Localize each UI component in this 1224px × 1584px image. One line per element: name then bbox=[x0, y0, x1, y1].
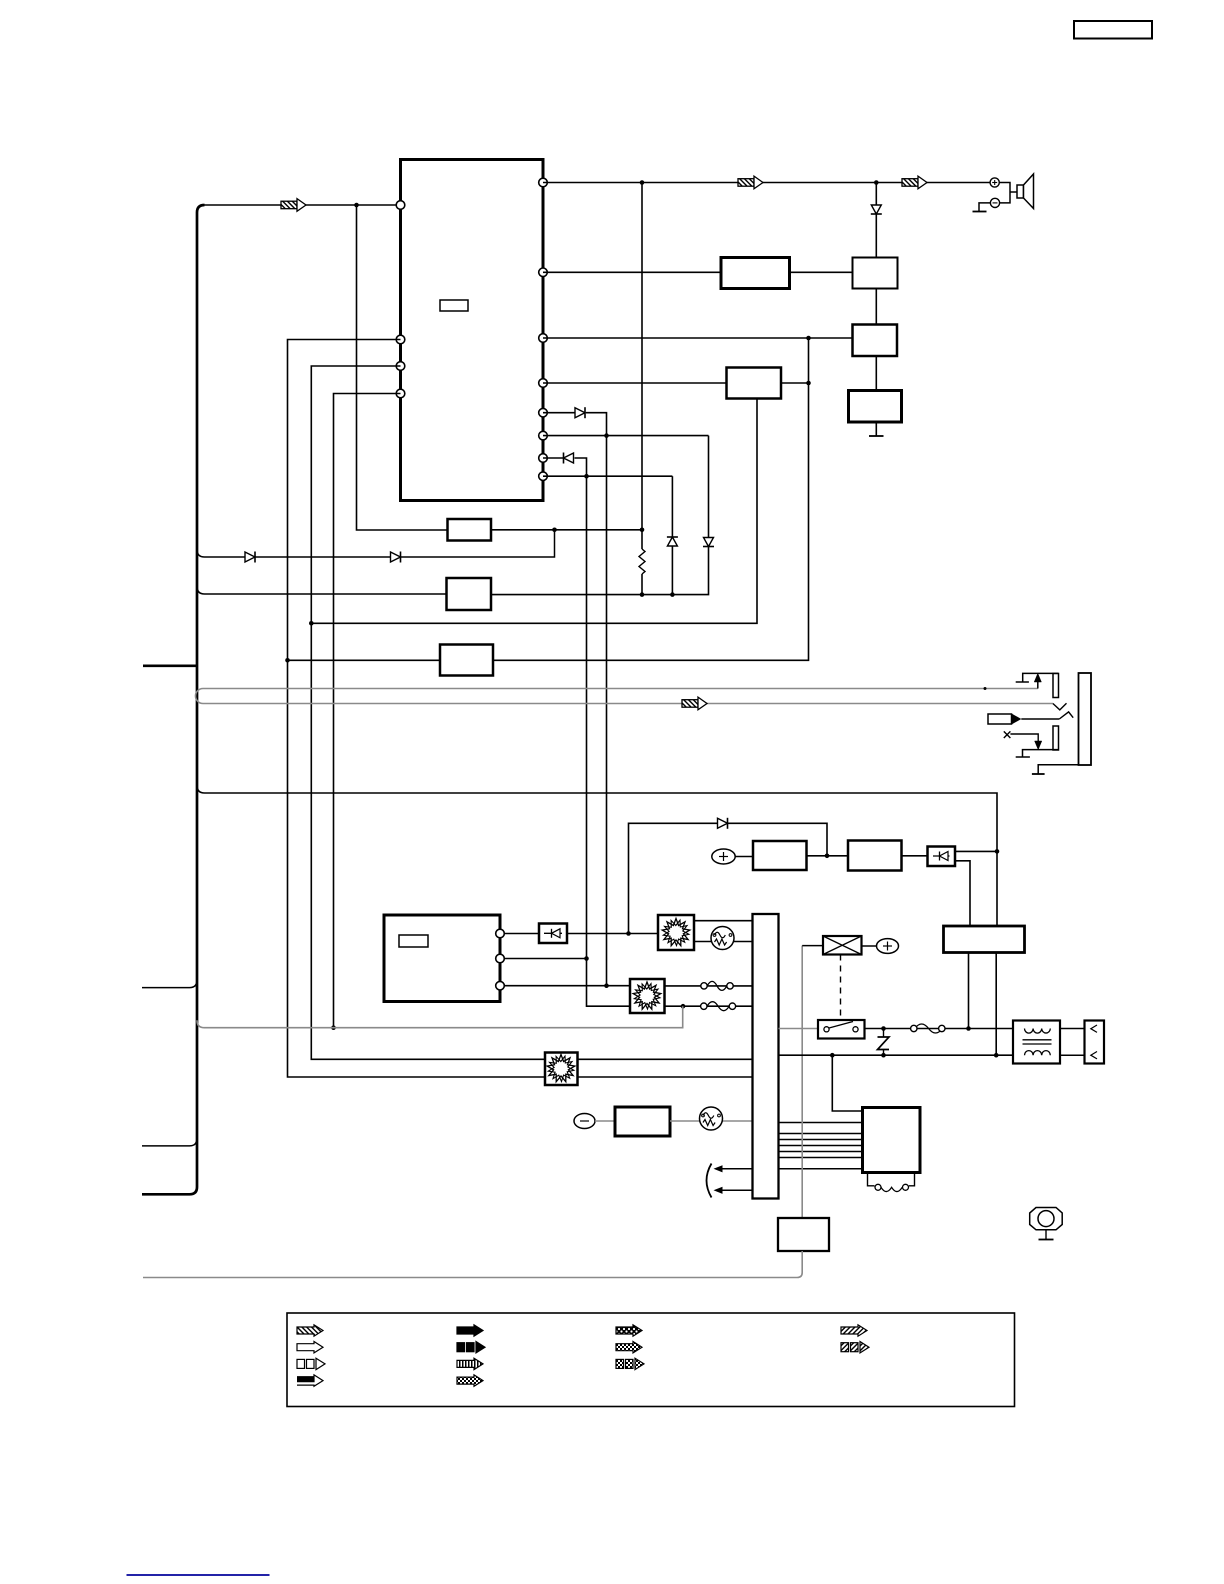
plus terminal 2 bbox=[877, 939, 899, 954]
wire switch to transformer bbox=[865, 1028, 1014, 1030]
power block M (thick) bbox=[863, 1108, 921, 1173]
tuner block U2 (thick) bbox=[384, 915, 500, 1002]
wire pin R6 bbox=[543, 435, 709, 437]
wire bar to power block bundle bbox=[779, 1122, 863, 1124]
wire R8 vertical down with diode D7 bbox=[671, 476, 673, 537]
wire vertical from L1 junction to small block F1 bbox=[357, 205, 448, 530]
wire gray AM loop antenna line bbox=[197, 1006, 683, 1027]
signal arrow A1 bbox=[281, 199, 306, 212]
diode D3 bbox=[871, 205, 881, 214]
wire feedback with diode D8 bbox=[629, 823, 718, 933]
block D bbox=[727, 368, 782, 399]
wire gray motor line vertical bbox=[801, 946, 803, 1218]
arrow out lower 1 bbox=[718, 1168, 753, 1170]
legend arrow c3r1 dotted black bbox=[616, 1325, 642, 1336]
diode D1 bbox=[245, 552, 255, 562]
pin L4 bbox=[396, 389, 405, 398]
junction small on head cable bbox=[984, 687, 987, 690]
wire block L to trap T2 bbox=[670, 1120, 753, 1122]
tuner label box bbox=[399, 935, 428, 947]
wire box2 upper out with fuse bbox=[665, 985, 753, 987]
pin L1 bbox=[396, 201, 405, 210]
wire playback head cable loop bbox=[196, 689, 204, 704]
junction L1 bbox=[354, 203, 359, 208]
speaker SP1 bbox=[1017, 185, 1024, 198]
wire pin R8 bbox=[543, 475, 672, 477]
signal arrow A2 bbox=[738, 176, 763, 189]
op-amp main IC U1 bbox=[401, 160, 544, 501]
wire bus to IC input bbox=[205, 204, 397, 206]
pin R6 bbox=[539, 431, 548, 440]
fuse F3 bbox=[915, 1024, 943, 1033]
X mark bbox=[1004, 731, 1011, 738]
wire J2 to AM box bbox=[567, 933, 658, 935]
pin R8 bbox=[539, 472, 548, 481]
wire bus branch to rectifier net bbox=[197, 786, 997, 927]
wire bus branch with diodes D1 D2 bbox=[197, 530, 555, 557]
pin R1 bbox=[539, 178, 548, 187]
wire vertical R3/R4 junction down bbox=[493, 338, 809, 660]
tuner pin P1 bbox=[496, 929, 505, 938]
legend arrow c2r4 checkered bbox=[457, 1375, 483, 1386]
wire plus to block H bbox=[735, 856, 753, 858]
head shield bracket top bbox=[1016, 673, 1059, 682]
tape jog upper bbox=[1053, 703, 1067, 710]
wire L3 branch to block D return bbox=[311, 399, 757, 624]
pin R2 bbox=[539, 268, 548, 277]
legend box bbox=[287, 1313, 1015, 1407]
junction R5 vertical to tuner wire bbox=[604, 983, 609, 988]
diode D4 bbox=[575, 408, 585, 418]
signal arrow A3 bbox=[902, 176, 927, 189]
junction L2 branch bbox=[285, 658, 290, 663]
block E (thick) bbox=[849, 391, 902, 423]
junction to power block M bbox=[830, 1053, 835, 1058]
legend arrow c1r2 white bbox=[297, 1342, 323, 1353]
power plus terminal bbox=[712, 849, 735, 864]
wire K out right pin bbox=[995, 953, 997, 1056]
rec/pb head bbox=[1053, 674, 1059, 698]
block A (thick) bbox=[721, 258, 790, 289]
wire block C to block E bbox=[875, 356, 877, 391]
junction K to AC line bbox=[966, 1026, 971, 1031]
junction R1-a bbox=[640, 180, 645, 185]
hex nut symbol bbox=[1030, 1208, 1063, 1230]
ferrite bead Z bbox=[883, 1029, 885, 1037]
diode D2 bbox=[391, 552, 401, 562]
arrow into head (up) bbox=[1037, 679, 1039, 689]
trap circle T2 bbox=[700, 1107, 723, 1130]
diode D6 bbox=[704, 538, 714, 547]
legend arrow c2r2 black squares bbox=[457, 1343, 465, 1352]
ground block E bbox=[869, 435, 884, 437]
wire junction R1-a down bbox=[641, 183, 643, 550]
speaker terminal minus bbox=[990, 198, 999, 207]
wire block I to diode box J bbox=[902, 855, 928, 857]
junction F1/diode-net bbox=[552, 528, 557, 533]
diode D8 bbox=[718, 818, 728, 828]
wire box3 upper out bbox=[578, 1058, 753, 1060]
block F3 bbox=[440, 645, 493, 676]
wire pin R7 with diode D5 bbox=[543, 457, 564, 459]
pin R5 bbox=[539, 408, 548, 417]
wire minus to block L bbox=[595, 1120, 615, 1122]
wire R6 vertical down with diode D6 bbox=[708, 436, 710, 538]
junction L4 to gray antenna wire bbox=[331, 1025, 336, 1030]
pin L2 bbox=[396, 335, 405, 344]
wire J out upper bbox=[955, 850, 997, 852]
wire box1 lower out through trap bbox=[694, 941, 753, 943]
wire mixer to gray vertical bbox=[802, 945, 823, 947]
wire block B to block C bbox=[875, 289, 877, 325]
antenna box 3 bbox=[545, 1053, 578, 1086]
junction R4 bbox=[806, 381, 811, 386]
wire head cable upper bbox=[203, 688, 1038, 690]
wire bus branch to F2 bbox=[197, 587, 447, 595]
dashed link mixer to switch bbox=[840, 955, 842, 1021]
ground speaker bbox=[973, 211, 987, 213]
head shield bracket bottom bbox=[1016, 750, 1059, 757]
block C bbox=[853, 325, 898, 357]
wire P2 to R7 vertical bbox=[504, 958, 586, 960]
pin R7 bbox=[539, 454, 548, 463]
junction antenna gray bbox=[681, 1004, 686, 1009]
fuse F1 bbox=[701, 981, 733, 990]
wire main signal bus (thick vertical) bbox=[142, 205, 205, 1194]
power transformer T bbox=[1013, 1021, 1060, 1064]
wire P1 to diode box J2 bbox=[504, 933, 539, 935]
erase head bbox=[1053, 726, 1059, 750]
junction R8/R7 bbox=[584, 474, 589, 479]
wire pin L2 to vertical bbox=[288, 340, 546, 1078]
junction resistor bottom bbox=[640, 592, 645, 597]
junction K to AC line 2 bbox=[994, 1053, 999, 1058]
block H bbox=[753, 841, 807, 870]
pin R4 bbox=[539, 379, 548, 388]
reference box top right bbox=[1074, 21, 1152, 39]
legend arrow c2r1 solid black bbox=[457, 1325, 483, 1336]
junction D7 bottom bbox=[670, 592, 675, 597]
wire erase feed to tape bbox=[1021, 718, 1059, 720]
IC U1 label box bbox=[440, 300, 468, 311]
junction R3 bbox=[806, 336, 811, 341]
pin L3 bbox=[396, 362, 405, 371]
wire pin R3 to block C bbox=[543, 337, 853, 339]
wire to tuner filter F3 bbox=[288, 659, 441, 661]
wire pin R1 to speaker bbox=[543, 182, 990, 184]
fuse F2 bbox=[701, 1002, 736, 1011]
wire box2 lower out with fuse bbox=[665, 1005, 753, 1007]
wire page stub in (thick) bbox=[143, 664, 197, 667]
speaker terminal plus bbox=[990, 178, 999, 187]
FM antenna box 2 bbox=[630, 979, 665, 1013]
junction L3 branch bbox=[309, 621, 314, 626]
AC inlet connector bbox=[1085, 1021, 1105, 1064]
diode box J2 bbox=[539, 924, 567, 944]
wire J out lower to block K bbox=[955, 861, 970, 926]
wire motor return (gray) bbox=[143, 1251, 802, 1278]
wire page stub 3 bbox=[142, 1138, 197, 1146]
erase head feed: rect and solid triangle bbox=[988, 714, 1012, 724]
junction Z bottom bbox=[881, 1053, 886, 1058]
tuner pin P2 bbox=[496, 954, 505, 963]
wire block A to block B bbox=[790, 271, 853, 273]
ground tape bbox=[1032, 773, 1045, 775]
tape jog lower bbox=[1059, 712, 1073, 719]
junction Z top bbox=[881, 1026, 886, 1031]
legend arrow c4r1 hatch2 bbox=[841, 1325, 867, 1336]
power switch S1 bbox=[818, 1020, 865, 1039]
minus terminal bbox=[574, 1114, 595, 1129]
diode D7 (up) bbox=[667, 536, 678, 538]
wire block H to block I bbox=[807, 855, 849, 857]
wire pin R5 with diode D4 bbox=[543, 412, 575, 414]
wire pin R2 to block A bbox=[543, 271, 721, 273]
junction at diode box output bbox=[995, 849, 1000, 854]
wire transformer to AC connector bbox=[1060, 1028, 1085, 1030]
bracket arc bbox=[707, 1164, 712, 1198]
block I bbox=[848, 841, 902, 871]
junction R7 tuner pin2 bbox=[584, 956, 589, 961]
legend arrow c3r3 checker boxes bbox=[616, 1359, 624, 1368]
mixer box X bbox=[823, 936, 862, 955]
wire bar to power switch (gray) bbox=[779, 1028, 819, 1030]
AM antenna box 1 bbox=[658, 915, 694, 950]
wire head cable lower bbox=[203, 703, 1053, 705]
AC cord below M bbox=[868, 1173, 875, 1186]
legend arrow c4r2 hatch boxes bbox=[841, 1343, 849, 1352]
trap circle T1 bbox=[711, 927, 734, 950]
wire diode D3 to block B bbox=[875, 214, 877, 258]
junction R1-b bbox=[874, 180, 879, 185]
junction H-I bbox=[825, 854, 830, 859]
arrow out lower 2 bbox=[718, 1189, 753, 1191]
block K bbox=[944, 926, 1025, 953]
signal arrow A4 bbox=[682, 697, 707, 710]
junction F1 net bbox=[640, 528, 645, 533]
wire AC lower row bbox=[779, 1054, 1014, 1056]
wire F1 output bbox=[491, 529, 642, 531]
wire terminals to speaker bbox=[999, 183, 1010, 203]
block B bbox=[853, 258, 898, 289]
diode box J bbox=[928, 847, 956, 867]
junction feedback to tuner AM line bbox=[626, 931, 631, 936]
pin R3 bbox=[539, 334, 548, 343]
footer rule (blue) bbox=[127, 1574, 270, 1576]
wire box1 upper out bbox=[694, 920, 753, 922]
legend arrow c1r4 black/white bbox=[297, 1376, 314, 1382]
wire minus terminal to ground bbox=[979, 203, 990, 212]
diode D5 bbox=[564, 453, 574, 463]
wire junction to diode D3 bbox=[875, 183, 877, 206]
resistor R1 bbox=[639, 549, 645, 574]
wire to power block M bbox=[832, 1055, 862, 1111]
wire page stub 2 bbox=[142, 980, 197, 988]
wire pin L3 to vertical bbox=[311, 366, 545, 1059]
tuner pin P3 bbox=[496, 981, 505, 990]
wire mixer to plus terminal bbox=[862, 945, 877, 947]
legend arrow c2r3 striped bbox=[457, 1358, 483, 1369]
wire P3 to AM/FM box2 bbox=[504, 985, 630, 987]
motor block N bbox=[778, 1218, 829, 1251]
wire tape bar to ground bbox=[1038, 765, 1078, 774]
wire block D output bbox=[781, 382, 809, 384]
block F1 bbox=[448, 519, 492, 541]
wire pin R4 to block D bbox=[543, 382, 727, 384]
wire pin L4 to AM antenna line bbox=[334, 394, 401, 1028]
legend arrow c1r1 hatched bbox=[297, 1325, 323, 1336]
block L (thick) bbox=[615, 1107, 670, 1136]
tape bar bbox=[1079, 673, 1092, 765]
legend arrow c3r2 dense checker bbox=[616, 1342, 642, 1353]
wire K out left pin bbox=[968, 953, 970, 1029]
junction R6/R5 bbox=[604, 433, 609, 438]
wire box3 lower out bbox=[578, 1076, 753, 1078]
function selector bar bbox=[753, 914, 779, 1199]
legend arrow c1r3 boxes bbox=[297, 1359, 305, 1368]
wire X to down arrow bbox=[1010, 734, 1038, 743]
block F2 bbox=[447, 578, 492, 610]
wire block E to ground bbox=[875, 422, 877, 436]
